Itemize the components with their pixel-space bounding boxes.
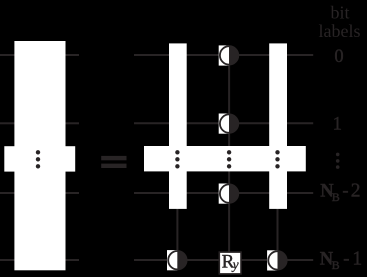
ellipsis dots on middle column [227,150,231,168]
horizontal bulge bar (ellipsis row, right circuit) [144,146,306,171]
wire qNB-1 left segment (left block) [0,259,15,261]
multi-qubit gate bar 2 (right white bar) [269,43,287,209]
svg-text:1: 1 [333,114,343,135]
label column ellipsis dots [336,153,340,169]
wire q0 right stub (left block) [65,54,79,56]
wire q1 right stub (left block) [65,122,79,124]
equals sign [101,156,126,168]
ellipsis dots in block U [36,150,40,168]
ellipsis dots on bar 1 [175,150,179,168]
half-filled control C1 (bit 0, middle column) [219,45,239,65]
wire bitNB-1 (right circuit) [134,259,313,261]
svg-text:0: 0 [334,47,343,67]
half-filled control C4 (bit NB-1, left column) [167,250,187,270]
unitary block U (tall white box, left side) [14,41,65,270]
wire bit0 (right circuit) [134,54,313,56]
label: NB - 2 [320,181,360,205]
wire q1 left segment (left block) [0,122,15,124]
svg-text:2: 2 [351,181,361,202]
wire bit1 (right circuit) [134,122,313,124]
svg-text:-: - [343,250,349,270]
half-filled control C5 (bit NB-1, right column) [267,250,287,270]
svg-text:labels: labels [319,21,361,41]
unitary block U middle bulge (ellipsis row extension) [4,146,75,171]
svg-text:1: 1 [352,249,362,270]
wire bitNB-2 (right circuit) [134,192,313,194]
svg-text:B: B [332,190,340,204]
half-filled control C3 (bit NB-2, middle column) [219,184,239,204]
svg-text:B: B [332,258,340,272]
wire qNB-1 right stub (left block) [65,259,79,261]
vertical line right column (below bar) [277,208,279,260]
wire q0 left segment (left block) [0,54,15,56]
vertical line left column (below bar) [176,208,178,260]
svg-text:-: - [342,182,348,202]
control bus vertical line (middle column) [228,46,230,252]
svg-text:y: y [231,257,239,272]
label: NB - 1 [320,249,362,272]
wire qNB-2 right stub (left block) [65,192,79,194]
svg-text:bit: bit [330,3,349,23]
wire qNB-2 left segment (left block) [0,192,15,194]
ellipsis dots on bar 2 [275,150,279,168]
multi-qubit gate bar 1 (left white bar) [169,43,187,209]
gate Ry box [219,252,241,274]
half-filled control C2 (bit 1, middle column) [219,114,239,134]
